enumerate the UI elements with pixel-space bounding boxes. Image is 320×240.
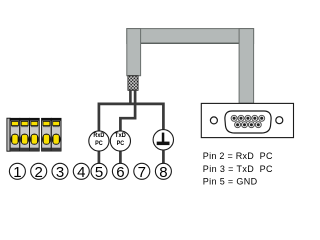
- D-sub pin 3: [245, 115, 251, 121]
- svg-text:8: 8: [159, 164, 167, 181]
- terminal block end plate: [7, 118, 10, 151]
- terminal 1: [9, 163, 25, 181]
- svg-text:TxD: TxD: [115, 132, 126, 139]
- svg-text:3: 3: [56, 164, 64, 181]
- D-sub pin 4: [252, 115, 258, 121]
- wire from braid right jog to TxD: [120, 90, 135, 131]
- cable left vertical jacket segment: [127, 29, 141, 76]
- terminal 2: [31, 163, 47, 181]
- svg-text:6: 6: [116, 164, 124, 181]
- svg-text:Pin 2 = RxDPC: Pin 2 = RxDPC: [203, 151, 273, 161]
- D-sub pin 9: [255, 122, 261, 128]
- D-sub pin 2: [238, 115, 244, 121]
- terminal 4: [73, 163, 89, 181]
- terminal 3: [52, 163, 68, 181]
- D-sub connector J1 body: [201, 103, 293, 137]
- terminal block unit 2: [20, 118, 30, 151]
- svg-text:Pin 3 = TxDPC: Pin 3 = TxDPC: [203, 164, 273, 174]
- D-sub pin 6: [235, 122, 241, 128]
- label Pin 3 = TxD PC: [203, 164, 273, 174]
- terminal 8: [155, 163, 171, 181]
- node TxD PC: [110, 131, 130, 151]
- D-sub pin 8: [248, 122, 254, 128]
- D-sub shell: [225, 111, 271, 133]
- terminal block unit 5: [51, 118, 61, 151]
- terminal block unit 1: [10, 118, 20, 151]
- label Pin 2 = RxD PC: [203, 151, 273, 161]
- wire TxD circle to terminal 6: [119, 152, 122, 164]
- cable horizontal jacket segment: [127, 29, 254, 44]
- terminal 5: [91, 163, 107, 181]
- wire from braid left to bus: [129, 90, 132, 104]
- svg-text:Pin 5 = GND: Pin 5 = GND: [203, 177, 258, 187]
- terminal block unit 4: [42, 118, 52, 151]
- terminal block unit 3: [30, 118, 40, 151]
- svg-text:PC: PC: [117, 140, 125, 147]
- D-sub right screw hole: [276, 117, 283, 124]
- ground symbol: [157, 133, 170, 146]
- node RxD PC: [89, 131, 109, 151]
- cable shield braid: [128, 76, 138, 91]
- terminal 6: [112, 163, 128, 181]
- cable right vertical jacket segment: [239, 29, 254, 104]
- D-sub pin 5: [259, 115, 265, 121]
- wire ground circle to terminal 8: [162, 151, 165, 164]
- svg-text:4: 4: [77, 164, 85, 181]
- D-sub left screw hole: [210, 117, 217, 124]
- label Pin 5 = GND: [203, 177, 258, 187]
- svg-text:2: 2: [35, 164, 43, 181]
- D-sub pin 1: [231, 115, 237, 121]
- svg-text:1: 1: [13, 164, 21, 181]
- svg-text:PC: PC: [95, 140, 103, 147]
- cable jacket bottom shadow edge: [127, 42, 253, 44]
- svg-text:7: 7: [138, 164, 146, 181]
- terminal 7: [134, 163, 150, 181]
- wire RxD circle to terminal 5: [98, 152, 101, 164]
- svg-text:RxD: RxD: [93, 132, 104, 139]
- svg-text:5: 5: [95, 164, 103, 181]
- D-sub pin 7: [242, 122, 248, 128]
- ground node: [153, 130, 173, 150]
- wire bus RxD to ground drop: [99, 104, 163, 131]
